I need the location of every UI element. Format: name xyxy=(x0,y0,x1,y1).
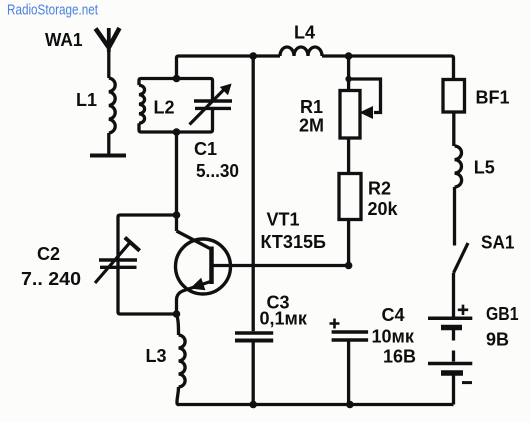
svg-text:КТ315Б: КТ315Б xyxy=(261,232,326,252)
svg-text:R1: R1 xyxy=(300,97,323,117)
node R1 top rail junction xyxy=(345,52,353,60)
tank loop L2 / C1 xyxy=(139,79,213,133)
wire C3 lower xyxy=(252,343,255,405)
wire bottom rail xyxy=(177,403,454,406)
resistor R1 (potentiometer 2M) xyxy=(340,79,381,138)
svg-text:5...30: 5...30 xyxy=(196,161,239,181)
wire emitter down xyxy=(175,300,178,314)
wire base xyxy=(212,264,349,267)
wire C4 lower xyxy=(347,342,350,405)
capacitor C4 (electrolytic) xyxy=(330,319,369,341)
svg-text:2M: 2M xyxy=(299,116,324,136)
transistor VT1 xyxy=(176,231,231,300)
wire SA1 to battery xyxy=(452,273,455,317)
headphone BF1 xyxy=(443,80,465,113)
svg-text:L4: L4 xyxy=(294,23,315,43)
inductor L5 xyxy=(455,146,462,187)
node R1 wiper tap xyxy=(345,76,351,82)
wire R1 to R2 xyxy=(347,138,350,174)
wire top rail right xyxy=(322,56,454,80)
wire rail to R1 xyxy=(347,56,350,91)
node base/R2/C4 junction xyxy=(345,262,353,270)
svg-text:SA1: SA1 xyxy=(481,233,515,253)
ground xyxy=(90,154,126,158)
inductor L1 xyxy=(109,78,115,133)
wire C3 branch upper xyxy=(252,56,255,331)
wire GB1 to bottom rail xyxy=(452,376,455,405)
wire top rail left xyxy=(177,56,281,79)
wire tank bottom down xyxy=(175,132,178,215)
svg-text:L1: L1 xyxy=(76,90,97,110)
node collector/C2 top junction xyxy=(173,211,181,219)
svg-text:0,1мк: 0,1мк xyxy=(260,309,308,329)
node tank top xyxy=(173,75,181,83)
switch SA1 xyxy=(454,243,469,273)
node emitter/C2 bottom junction xyxy=(173,310,181,318)
battery GB1 xyxy=(428,305,472,383)
node C4 bottom rail junction xyxy=(346,401,354,409)
svg-text:C1: C1 xyxy=(194,139,217,159)
svg-text:L3: L3 xyxy=(146,346,167,366)
node tank bottom xyxy=(173,128,181,136)
svg-text:C2: C2 xyxy=(37,244,60,264)
capacitor C1 (variable) xyxy=(190,84,233,125)
svg-text:VT1: VT1 xyxy=(267,210,300,230)
wire L5 to SA1 xyxy=(453,187,456,246)
inductor L4 xyxy=(280,47,322,56)
svg-text:16В: 16В xyxy=(383,347,416,367)
resistor R2 xyxy=(339,174,361,220)
capacitor C2 (variable) xyxy=(95,238,140,284)
node C3 top rail junction xyxy=(249,52,257,60)
svg-text:R2: R2 xyxy=(368,179,391,199)
wire R2 to base junction xyxy=(347,220,350,266)
wire antenna to L1 xyxy=(107,48,110,78)
wire to L3 xyxy=(177,314,179,335)
antenna WA1 xyxy=(96,28,120,52)
svg-text:C4: C4 xyxy=(382,305,405,325)
inductor L3 xyxy=(179,335,186,387)
svg-text:L2: L2 xyxy=(154,98,175,118)
wire collector up xyxy=(175,215,178,231)
wire L3 to bottom rail xyxy=(177,387,179,405)
wire C2 loop xyxy=(118,215,177,314)
svg-text:7.. 240: 7.. 240 xyxy=(21,269,81,289)
svg-text:20k: 20k xyxy=(368,199,399,219)
svg-text:GB1: GB1 xyxy=(486,304,519,324)
wire BF1 to L5 xyxy=(452,112,455,146)
svg-text:WA1: WA1 xyxy=(45,30,83,50)
capacitor C3 xyxy=(235,333,273,341)
svg-text:9В: 9В xyxy=(486,330,509,350)
node C3 bottom rail junction xyxy=(249,401,257,409)
svg-text:BF1: BF1 xyxy=(476,88,510,108)
wire L1 to ground xyxy=(107,133,110,154)
svg-text:10мк: 10мк xyxy=(372,327,415,347)
inductor L2 xyxy=(139,85,145,123)
svg-text:L5: L5 xyxy=(474,158,495,178)
svg-text:RadioStorage.net: RadioStorage.net xyxy=(7,3,98,19)
